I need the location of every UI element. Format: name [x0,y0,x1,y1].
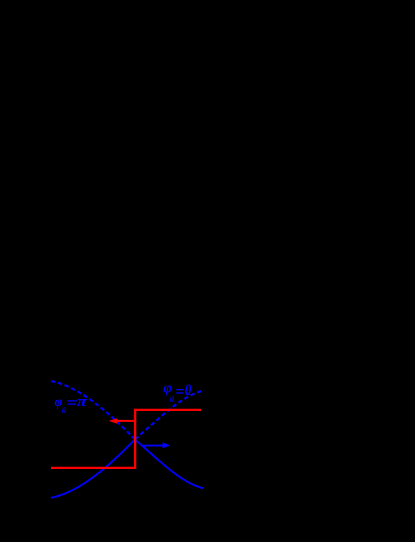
label phi0=0 : equals sign top bar [176,389,183,390]
svg-text:0: 0 [170,395,174,404]
curve phi0=pi dashed branch (below resonance) [51,381,135,440]
curve phi0=0 solid branch (below resonance) [51,439,135,498]
blue arrow (pointing right) [143,445,164,447]
curve phi0=pi solid branch (above resonance) [135,440,203,489]
label phi0=pi : equals sign top bar [67,400,77,401]
label phi0=pi : equals sign bottom bar [68,403,77,404]
svg-text:π: π [77,394,88,410]
red arrow (pointing left) [116,420,135,422]
svg-text:0: 0 [62,406,66,415]
curve phi0=0 dashed branch (above resonance) [135,390,204,439]
svg-text:0: 0 [185,382,192,399]
red step function [51,410,201,468]
label phi0=0 : equals sign bottom bar [176,392,183,393]
